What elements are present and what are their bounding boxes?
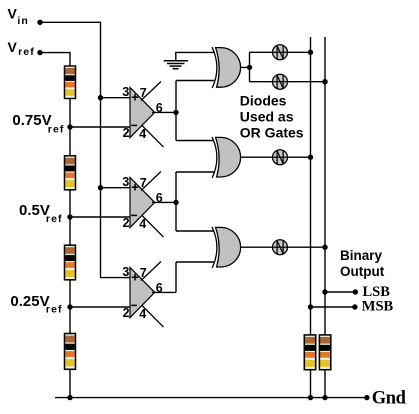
node D2 bus B junction bbox=[322, 79, 327, 84]
resistor R6 pulldown bus B bbox=[319, 335, 330, 370]
wire gate1 to diode D1 to bus A bbox=[250, 51, 311, 53]
node U2 output junction bbox=[173, 200, 178, 205]
wire gate2 bottom input bbox=[176, 171, 214, 173]
node bus A ground junction bbox=[308, 395, 313, 400]
diode D1 bbox=[273, 45, 288, 60]
wire gate1 bottom input bbox=[176, 80, 214, 82]
node 0.75Vref tap bbox=[67, 124, 72, 129]
wire output bus A vertical bbox=[310, 37, 312, 398]
node U1 output junction bbox=[173, 110, 178, 115]
label 0.75Vref bbox=[12, 112, 64, 135]
wire gate3 top input bbox=[176, 230, 214, 232]
node D1 bus A junction bbox=[308, 50, 313, 55]
svg-text:MSB: MSB bbox=[362, 299, 394, 315]
wire ground bus bottom bbox=[55, 397, 367, 399]
wire 0.5Vref to comparator U2 pin2 bbox=[70, 216, 130, 218]
wire output bus B vertical bbox=[324, 37, 326, 398]
node Vin to U2 pin3 junction bbox=[98, 185, 103, 190]
wire 0.25Vref to comparator U3 pin2 bbox=[70, 306, 130, 308]
wire gate3 output to diode D4 to bus B bbox=[241, 246, 325, 248]
wire resistor ladder vertical bbox=[69, 52, 71, 398]
label Diodes Used as OR Gates bbox=[240, 93, 304, 141]
wire gate1 to diode D2 to bus B bbox=[250, 81, 326, 83]
label 0.5Vref bbox=[19, 202, 63, 225]
wire Vref horizontal bbox=[40, 52, 70, 54]
ground symbol top bbox=[164, 61, 188, 69]
svg-text:Gnd: Gnd bbox=[372, 388, 407, 408]
diode D3 bbox=[273, 150, 288, 165]
node bus B ground junction bbox=[322, 395, 327, 400]
node D3 bus A junction bbox=[308, 155, 313, 160]
wire gate3 bottom input bbox=[176, 261, 214, 263]
node MSB tap on bus A bbox=[308, 304, 313, 309]
wire Vin vertical bus bbox=[100, 22, 102, 278]
OR gate G1 bbox=[212, 47, 241, 88]
label Vref bbox=[8, 39, 35, 58]
wire 0.75Vref to comparator U1 pin2 bbox=[70, 126, 130, 128]
node Vref dot bbox=[37, 50, 42, 55]
svg-text:ref: ref bbox=[46, 303, 63, 315]
resistor R5 pulldown bus A bbox=[304, 335, 315, 370]
svg-text:V: V bbox=[8, 6, 18, 22]
svg-text:0.75V: 0.75V bbox=[12, 112, 51, 129]
node ladder-ground junction bbox=[67, 395, 72, 400]
OR gate G3 bbox=[212, 227, 241, 268]
label Vin bbox=[8, 6, 29, 27]
op-amp U3 comparator bbox=[122, 262, 163, 328]
wire Vin to comparator U1 pin3 bbox=[101, 97, 131, 99]
node Vin dot bbox=[37, 20, 42, 25]
node 0.25Vref tap bbox=[67, 304, 72, 309]
svg-text:ref: ref bbox=[48, 124, 65, 136]
wire ground to gate1 top input bbox=[176, 52, 214, 60]
wire U2 output bbox=[152, 201, 176, 203]
svg-text:Used as: Used as bbox=[240, 109, 294, 125]
op-amp U2 comparator bbox=[122, 172, 163, 238]
node D4 bus B junction bbox=[322, 245, 327, 250]
node Gnd terminal dot bbox=[364, 395, 369, 400]
svg-text:Diodes: Diodes bbox=[240, 93, 287, 109]
wire Vin to comparator U3 pin3 bbox=[101, 277, 131, 279]
resistor R1 bbox=[65, 66, 76, 99]
label Binary Output bbox=[340, 248, 385, 279]
node LSB tap on bus B bbox=[322, 289, 327, 294]
wire U1 output vertical to gates bbox=[175, 81, 177, 141]
svg-text:OR Gates: OR Gates bbox=[240, 125, 304, 141]
node MSB terminal bbox=[352, 304, 357, 309]
wire gate2 top input bbox=[176, 140, 214, 142]
svg-text:Output: Output bbox=[340, 264, 385, 279]
resistor R2 bbox=[65, 156, 76, 190]
wire LSB bbox=[325, 291, 355, 293]
op-amp U1 comparator bbox=[122, 82, 163, 148]
wire gate2 output to diode D3 to bus A bbox=[241, 156, 311, 158]
wire U3 output vertical to gate 3 bbox=[175, 262, 177, 292]
node Vin to U1 pin3 junction bbox=[98, 95, 103, 100]
svg-text:in: in bbox=[17, 15, 29, 27]
label 0.25Vref bbox=[10, 293, 62, 316]
wire U3 output bbox=[152, 291, 176, 293]
svg-text:ref: ref bbox=[18, 46, 35, 58]
wire Vin horizontal bbox=[40, 21, 101, 23]
diode D2 bbox=[273, 74, 288, 89]
svg-text:V: V bbox=[8, 39, 18, 55]
svg-text:0.25V: 0.25V bbox=[10, 293, 49, 310]
wire gate1 branch vertical bbox=[249, 52, 251, 81]
wire Vin to comparator U2 pin3 bbox=[101, 187, 131, 189]
wire gate1 output bbox=[241, 66, 250, 68]
resistor R4 bbox=[65, 334, 76, 370]
wire U1 output bbox=[152, 111, 176, 113]
wire MSB bbox=[311, 306, 355, 308]
svg-text:ref: ref bbox=[46, 213, 63, 225]
node LSB terminal bbox=[353, 289, 358, 294]
node 0.5Vref tap bbox=[67, 214, 72, 219]
diode D4 bbox=[273, 240, 288, 255]
node gate1 output junction bbox=[247, 65, 252, 70]
OR gate G2 bbox=[212, 137, 241, 178]
resistor R3 bbox=[65, 245, 76, 280]
svg-text:LSB: LSB bbox=[363, 284, 391, 300]
wire U2 output vertical to gates bbox=[175, 172, 177, 231]
svg-text:Binary: Binary bbox=[340, 248, 383, 263]
